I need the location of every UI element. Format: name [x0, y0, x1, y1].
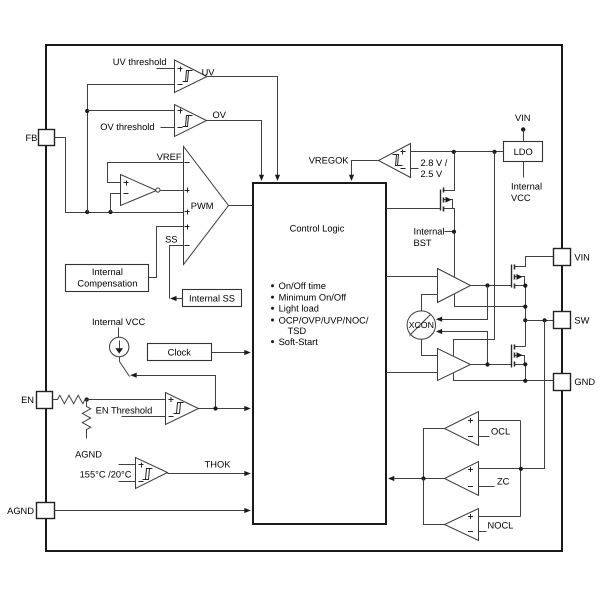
resistor R1 EN series	[53, 395, 87, 403]
wire SW sense to comparators	[521, 321, 545, 469]
wire EN threshold to minus input	[122, 416, 166, 418]
svg-text:VREF: VREF	[157, 152, 182, 162]
svg-text:XCON: XCON	[409, 320, 434, 330]
wire OV plus input from FB node	[88, 110, 175, 112]
svg-text:AGND: AGND	[7, 506, 34, 516]
wire control logic to LS driver input	[387, 372, 438, 374]
svg-text:Light load: Light load	[279, 304, 319, 314]
wire clock to control logic	[212, 352, 245, 354]
wire UV minus to FB node	[88, 85, 175, 213]
node sense junction	[519, 467, 523, 471]
wire PWM output to control logic	[229, 205, 253, 207]
svg-text:Minimum On/Off: Minimum On/Off	[279, 292, 347, 302]
wire thermal inputs	[119, 465, 136, 482]
transistor Q1 BST switch	[441, 152, 455, 278]
comparator VREGOK	[379, 144, 411, 178]
comparator OV	[100, 105, 226, 137]
node FB/error-amp junction	[108, 210, 112, 214]
wire LDO output down	[523, 162, 525, 178]
pin FB	[26, 130, 55, 146]
wire NOCL minus stub	[479, 531, 487, 533]
wire NOCL output	[424, 479, 445, 525]
svg-text:Internal VCC: Internal VCC	[92, 317, 146, 327]
gate XCON cross-conduction control	[407, 311, 435, 339]
svg-text:NOCL: NOCL	[488, 521, 514, 531]
wire AGND to control logic	[55, 510, 245, 512]
svg-text:FB: FB	[26, 133, 38, 143]
wire VREGOK output to control logic	[352, 161, 379, 176]
svg-text:UV threshold: UV threshold	[113, 57, 167, 67]
svg-text:2.8 V /: 2.8 V /	[421, 158, 448, 168]
svg-text:ZC: ZC	[497, 477, 510, 487]
comparator EN	[166, 393, 199, 425]
svg-text:LDO: LDO	[514, 147, 533, 157]
svg-text:OCL: OCL	[491, 427, 510, 437]
wire control logic to HS driver input	[387, 276, 438, 278]
svg-text:155°C /20°C: 155°C /20°C	[80, 470, 132, 480]
node VIN supply dot	[521, 127, 525, 131]
node UV/OV branch junction	[85, 109, 89, 113]
node internal BST dot	[452, 230, 456, 234]
svg-text:EN: EN	[21, 395, 34, 405]
wire UV output to control logic	[207, 77, 278, 176]
wire SW node to pin	[526, 320, 554, 322]
comparator PWM	[184, 147, 229, 265]
svg-text:VIN: VIN	[515, 113, 531, 123]
box clock oscillator	[148, 344, 212, 361]
svg-text:BST: BST	[414, 238, 432, 248]
wire OV output to control logic	[207, 121, 262, 176]
wire ZC plus input	[479, 468, 521, 470]
wire switch to EN comparator output node	[137, 376, 216, 409]
svg-text:AGND: AGND	[75, 450, 102, 460]
wire Q3 source to GND	[525, 365, 527, 381]
svg-text:VIN: VIN	[574, 253, 590, 263]
wire HS driver output to Q2 gate	[471, 285, 512, 287]
svg-text:Compensation: Compensation	[77, 278, 137, 288]
wire EN node to comparator	[87, 399, 166, 401]
transistor Q3 low-side NMOS	[512, 345, 526, 368]
wire EN comparator output to control logic	[199, 408, 245, 410]
node SW sense branch	[543, 318, 547, 322]
svg-text:SS: SS	[165, 234, 177, 244]
svg-text:UV: UV	[202, 67, 216, 77]
wire LS gate feedback to XCON	[438, 332, 488, 365]
current source I1	[110, 328, 129, 357]
wire LS driver output to Q3 gate	[471, 364, 512, 366]
comparator OCL over-current	[445, 412, 479, 446]
switch S1	[120, 357, 137, 378]
box internal compensation	[66, 265, 149, 292]
wire control logic to Q1 gate	[387, 208, 441, 210]
wire compensation to PWM input	[149, 227, 184, 278]
svg-text:Internal: Internal	[511, 182, 542, 192]
pin VIN	[554, 249, 590, 266]
wire VREGOK plus to LDO output	[411, 151, 504, 153]
wire HS driver bottom rail to SW	[455, 294, 526, 307]
svg-text:TSD: TSD	[288, 326, 307, 336]
svg-text:THOK: THOK	[205, 460, 232, 470]
box internal SS	[183, 290, 242, 307]
pin GND	[554, 374, 596, 391]
resistor R2 EN pulldown	[82, 400, 90, 439]
pin AGND	[7, 503, 54, 519]
wire VIN to LDO	[523, 130, 525, 142]
svg-text:Internal SS: Internal SS	[189, 293, 235, 303]
svg-text:Soft-Start: Soft-Start	[279, 337, 319, 347]
node LS gate junction	[485, 362, 489, 366]
wire OCL minus stub	[479, 436, 490, 438]
wire ZC minus stub	[479, 486, 495, 488]
svg-text:Control Logic: Control Logic	[290, 223, 345, 233]
pin EN	[21, 392, 52, 409]
wire error amp minus to FB node	[111, 194, 121, 213]
IC outer border	[46, 45, 562, 551]
svg-text:Internal: Internal	[92, 267, 123, 277]
wire HS gate feedback to XCON	[438, 286, 488, 320]
wire LS driver bottom rail to GND	[454, 374, 554, 381]
wire VREGOK minus stub	[411, 168, 419, 170]
wire error amp output to PWM	[161, 190, 184, 192]
svg-text:PWM: PWM	[191, 201, 214, 211]
svg-text:OCP/OVP/UVP/NOC/: OCP/OVP/UVP/NOC/	[279, 315, 369, 325]
comparator ZC zero-cross	[445, 462, 479, 496]
svg-text:On/Off time: On/Off time	[279, 281, 326, 291]
node FB/UV-OV sense junction	[85, 210, 89, 214]
svg-text:VCC: VCC	[511, 193, 531, 203]
svg-text:OV: OV	[213, 110, 227, 120]
node EN divider junction	[85, 397, 89, 401]
wire ZC output to control logic	[395, 478, 445, 480]
wire THOK to control logic	[168, 473, 245, 475]
wire SS line	[170, 246, 184, 299]
svg-text:Clock: Clock	[168, 348, 192, 358]
svg-text:GND: GND	[574, 377, 595, 387]
wire FB to PWM + input	[55, 138, 184, 213]
svg-text:Internal: Internal	[414, 227, 445, 237]
regulator LDO	[504, 142, 543, 162]
wire XCON to HS driver input	[422, 295, 438, 311]
wire OCL output	[424, 429, 445, 479]
svg-text:OV threshold: OV threshold	[100, 122, 154, 132]
svg-text:2.5 V: 2.5 V	[421, 169, 444, 179]
wire internal VCC rail to LS driver	[454, 152, 495, 357]
comparator THOK thermal	[136, 458, 168, 489]
transistor Q2 high-side NMOS	[512, 257, 554, 289]
pin SW	[554, 312, 590, 329]
wire VREF to error amp plus	[108, 163, 184, 183]
node HS gate junction	[485, 283, 489, 287]
buffer low-side gate driver	[438, 349, 471, 381]
buffer high-side gate driver	[438, 269, 471, 303]
svg-text:SW: SW	[574, 315, 589, 325]
op-amp error amplifier	[121, 175, 160, 206]
wire sense rail OCL/ZC/NOCL	[520, 421, 522, 517]
comparator UV	[113, 57, 216, 93]
control logic block U10	[253, 183, 386, 524]
svg-text:EN Threshold: EN Threshold	[96, 405, 153, 415]
wire OCL plus input	[479, 420, 521, 422]
node LDO/BST-switch junction	[452, 150, 456, 154]
wire NOCL plus input	[479, 516, 521, 518]
wire XCON to LS driver input	[422, 340, 438, 356]
svg-text:VREGOK: VREGOK	[309, 156, 350, 166]
node LDO/driver-supply junction	[492, 150, 496, 154]
comparator NOCL negative over-current	[445, 509, 479, 541]
wire Q2 source to SW and Q3 drain	[525, 286, 527, 347]
